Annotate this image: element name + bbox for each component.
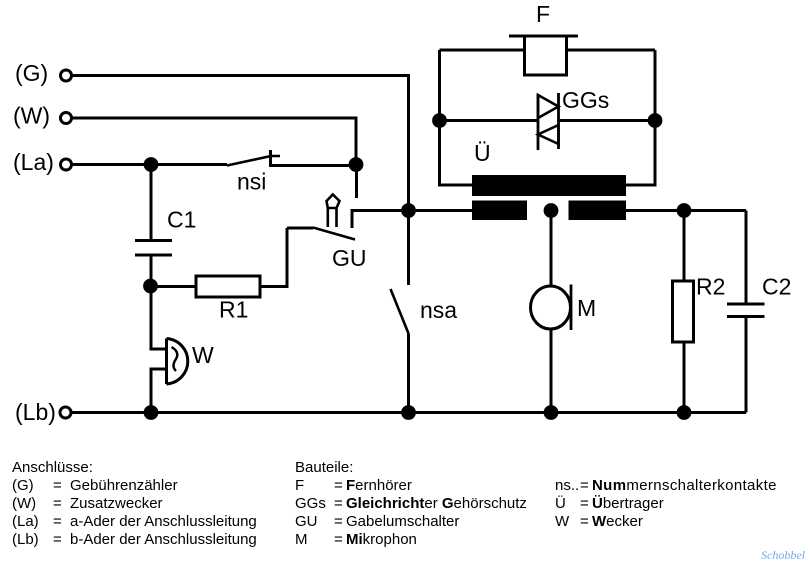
switch GU lower fixed contact	[352, 211, 409, 229]
svg-text:C1: C1	[167, 207, 196, 233]
svg-text:Wecker: Wecker	[592, 513, 643, 530]
wire transformer right row to C2	[626, 209, 746, 212]
wire bottom rail	[72, 411, 746, 414]
svg-text:Gleichrichter Gehörschutz: Gleichrichter Gehörschutz	[346, 495, 527, 512]
svg-text:Ü: Ü	[555, 494, 566, 512]
switch nsi contact tick	[269, 150, 272, 167]
svg-text:nsi: nsi	[237, 169, 266, 195]
svg-text:Anschlüsse:: Anschlüsse:	[12, 459, 93, 476]
node GGs left	[432, 113, 447, 128]
svg-text:GGs: GGs	[562, 87, 609, 113]
capacitor C1 plates	[135, 241, 172, 256]
wire F left	[440, 49, 524, 52]
wire (G) horizontal to right then down to node	[73, 76, 409, 205]
wire right vertical F/GGs/transformer	[626, 50, 655, 185]
node GGs right	[648, 113, 663, 128]
svg-text:C2: C2	[762, 274, 791, 300]
node R2 top	[677, 203, 692, 218]
bell W clapper	[172, 347, 178, 371]
wire R2 bottom	[683, 342, 686, 413]
node GU/G-line/nsa junction	[401, 203, 416, 218]
svg-text:Übertrager: Übertrager	[592, 495, 664, 512]
diode GGs left bar	[537, 94, 540, 150]
svg-text:=: =	[53, 513, 62, 530]
svg-text:=: =	[580, 477, 589, 494]
wire microphone to rail	[550, 330, 553, 413]
wire node to R1	[151, 285, 197, 288]
wire F right	[567, 49, 655, 52]
transformer U secondary left bar	[472, 201, 527, 221]
node rail R2	[677, 405, 692, 420]
wire GGs right	[559, 119, 656, 122]
switch GU plunger head	[327, 195, 340, 209]
microphone M bar	[570, 285, 573, 331]
transformer U secondary right bar	[569, 201, 627, 221]
receiver F body	[525, 36, 567, 75]
wire nsa bottom	[407, 334, 410, 413]
receiver F top line	[509, 35, 578, 38]
svg-text:b-Ader der Anschlussleitung: b-Ader der Anschlussleitung	[70, 531, 257, 548]
svg-text:GU: GU	[332, 245, 367, 271]
capacitor C2 wire bottom	[745, 318, 748, 413]
capacitor C2 plates	[727, 304, 765, 317]
wire GGs left	[440, 119, 539, 122]
wire node to transformer	[409, 209, 473, 212]
bell W wire bottom	[151, 369, 166, 413]
wire node to nsi	[151, 163, 227, 166]
svg-text:=: =	[580, 513, 589, 530]
wire (W) horizontal then down	[73, 118, 357, 158]
svg-text:Gebührenzähler: Gebührenzähler	[70, 477, 178, 494]
svg-text:F: F	[536, 1, 550, 27]
svg-text:GGs: GGs	[295, 495, 326, 512]
bell W body	[167, 339, 188, 385]
switch nsa blade	[391, 289, 409, 334]
svg-text:Fernhörer: Fernhörer	[346, 477, 412, 494]
diode GGs right bar	[557, 93, 560, 149]
bell W wire top	[151, 293, 166, 349]
node rail microphone	[544, 405, 559, 420]
transformer U primary bar	[472, 175, 626, 196]
wire R1 to GU pivot	[260, 228, 287, 287]
svg-text:W: W	[555, 513, 570, 530]
wire R2 top	[683, 211, 686, 282]
svg-text:Bauteile:: Bauteile:	[295, 459, 353, 476]
svg-text:R2: R2	[696, 274, 725, 300]
capacitor C2 wire top	[745, 211, 748, 304]
svg-text:=: =	[53, 531, 62, 548]
microphone M circle	[531, 286, 571, 329]
svg-text:(Lb): (Lb)	[12, 531, 39, 548]
svg-text:=: =	[53, 495, 62, 512]
node W/La junction	[349, 157, 364, 172]
svg-text:=: =	[334, 531, 343, 548]
svg-text:(G): (G)	[12, 477, 34, 494]
svg-text:=: =	[334, 513, 343, 530]
switch GU blade	[313, 228, 355, 240]
svg-text:Zusatzwecker: Zusatzwecker	[70, 495, 163, 512]
node C1/R1/W junction	[143, 279, 158, 294]
terminal (La)	[61, 159, 72, 170]
svg-text:(La): (La)	[12, 513, 39, 530]
terminal (G)	[61, 70, 72, 81]
svg-text:GU: GU	[295, 513, 318, 530]
wire transformer mid to microphone	[550, 211, 553, 288]
capacitor C1 wire top	[150, 171, 153, 239]
svg-text:R1: R1	[219, 297, 248, 323]
svg-text:ns..: ns..	[555, 477, 579, 494]
wire nsa top	[407, 211, 410, 286]
svg-text:Nummernschalterkontakte: Nummernschalterkontakte	[592, 477, 777, 494]
svg-text:M: M	[577, 295, 596, 321]
svg-text:(G): (G)	[15, 60, 48, 86]
resistor R2	[673, 281, 694, 342]
svg-text:(W): (W)	[13, 103, 50, 129]
svg-text:a-Ader der Anschlussleitung: a-Ader der Anschlussleitung	[70, 513, 257, 530]
capacitor C1 wire bottom	[150, 257, 153, 287]
diode GGs upper triangle	[538, 95, 559, 118]
wire left vertical F/GGs/transformer	[440, 50, 473, 185]
svg-text:M: M	[295, 531, 308, 548]
svg-text:Gabelumschalter: Gabelumschalter	[346, 513, 459, 530]
svg-text:=: =	[334, 477, 343, 494]
legend heading Anschluesse	[12, 459, 777, 548]
diode GGs lower triangle	[538, 125, 559, 144]
svg-text:F: F	[295, 477, 304, 494]
svg-text:(Lb): (Lb)	[15, 399, 56, 425]
svg-text:nsa: nsa	[420, 297, 457, 323]
wire (La) to C1 node	[73, 163, 152, 166]
wire nsi to W/La node	[271, 164, 357, 167]
node rail W-branch	[144, 405, 159, 420]
node La/C1 junction	[144, 157, 159, 172]
svg-text:Ü: Ü	[474, 140, 491, 166]
node transformer mid	[544, 203, 559, 218]
switch nsi blade	[227, 156, 280, 166]
svg-text:Mikrophon: Mikrophon	[346, 531, 417, 548]
svg-text:=: =	[53, 477, 62, 494]
switch GU plunger stem	[328, 208, 337, 227]
terminal (Lb)	[60, 407, 71, 418]
resistor R1	[196, 276, 260, 297]
svg-text:Schobbel: Schobbel	[761, 548, 806, 562]
svg-text:=: =	[580, 495, 589, 512]
svg-text:(La): (La)	[13, 149, 54, 175]
terminal (W)	[61, 113, 72, 124]
wire GU upper fixed contact	[355, 171, 358, 198]
switch GU pivot stub	[287, 227, 313, 230]
svg-text:(W): (W)	[12, 495, 36, 512]
svg-text:W: W	[192, 342, 214, 368]
svg-text:=: =	[334, 495, 343, 512]
node rail nsa	[401, 405, 416, 420]
